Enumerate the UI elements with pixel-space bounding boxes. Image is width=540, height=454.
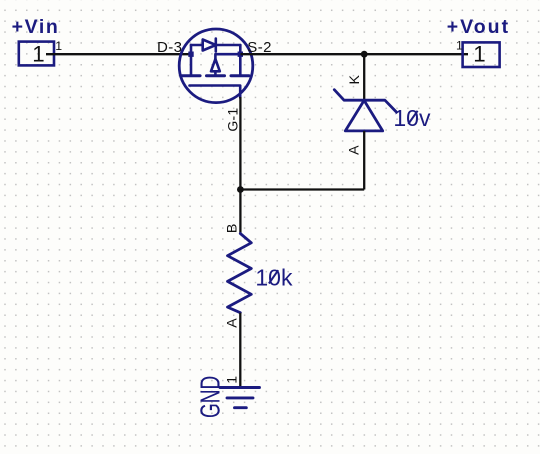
wire +Vin to MOSFET drain: [46, 53, 193, 55]
Q1 body diode cathode lead: [216, 44, 241, 47]
svg-text:G-1: G-1: [225, 108, 241, 132]
Q1 source stub: [239, 45, 242, 76]
ground bar top: [220, 386, 260, 389]
Q1 source-to-substrate link: [215, 54, 240, 59]
Q1 body diode triangle: [203, 40, 216, 51]
transistor Q1 body circle: [179, 29, 253, 103]
zener diode D1: [334, 90, 396, 131]
Q1 gate bar: [190, 86, 241, 98]
wire zener cathode: [363, 54, 365, 101]
wire zener anode down: [363, 131, 365, 190]
svg-text:K: K: [347, 75, 363, 85]
transistor Q1 (N-MOSFET with body diode): [179, 29, 253, 103]
value label 10v: [393, 105, 431, 131]
Q1 source junction square: [238, 52, 243, 57]
Q1 channel dash right: [231, 74, 249, 77]
ground bar bottom: [235, 406, 247, 409]
Q1 channel dash middle: [207, 74, 225, 77]
ground bar middle: [227, 396, 253, 399]
wire zener anode to node B: [240, 188, 364, 190]
Q1 substrate arrow stem: [214, 71, 217, 75]
value label 10k: [255, 264, 293, 290]
Q1 drain stub: [190, 45, 193, 76]
Q1 body diode cathode bar: [215, 39, 218, 52]
svg-text:B: B: [224, 224, 240, 233]
svg-text:1: 1: [473, 42, 485, 67]
ground symbol: [220, 388, 260, 408]
svg-text:A: A: [346, 145, 362, 155]
port P2 +Vout box: [463, 42, 500, 67]
resistor R1 zigzag: [228, 234, 252, 313]
svg-text:A: A: [225, 318, 241, 328]
junction node at Vout/zener: [361, 51, 368, 58]
Q1 body diode anode lead: [191, 44, 203, 47]
wire MOSFET source to +Vout: [241, 53, 469, 55]
svg-text:1: 1: [456, 39, 463, 53]
D1 cathode bar with zener wings: [334, 90, 396, 112]
Q1 channel dash left: [182, 74, 200, 77]
svg-text:D-3: D-3: [157, 39, 182, 56]
wire gate down to node B: [239, 97, 241, 190]
wire resistor to GND: [239, 313, 241, 387]
svg-text:+Vout: +Vout: [447, 16, 510, 38]
D1 anode triangle: [345, 100, 382, 130]
Q1 substrate arrow: [211, 59, 220, 71]
wire node B to resistor: [239, 190, 241, 234]
Q1 drain junction square: [188, 52, 193, 57]
node B junction dot: [237, 186, 244, 193]
svg-text:GND: GND: [195, 376, 227, 418]
port P1 +Vin box: [19, 42, 54, 66]
svg-text:1: 1: [55, 39, 62, 53]
svg-text:1: 1: [32, 42, 44, 67]
svg-text:+Vin: +Vin: [12, 16, 60, 38]
